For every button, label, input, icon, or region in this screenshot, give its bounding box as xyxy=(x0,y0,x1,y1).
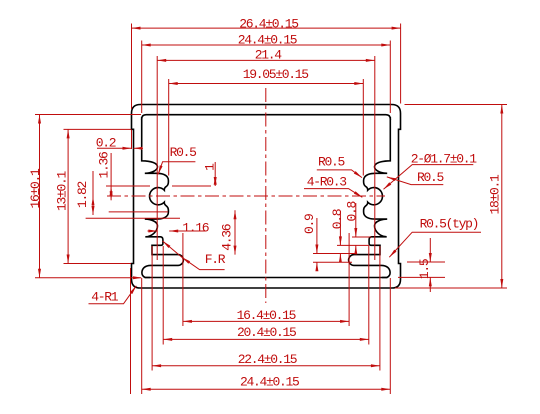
svg-text:19.05±0.15: 19.05±0.15 xyxy=(243,67,309,82)
svg-text:4.36: 4.36 xyxy=(220,224,235,251)
svg-text:16.4±0.15: 16.4±0.15 xyxy=(237,308,296,323)
svg-text:1.82: 1.82 xyxy=(75,182,90,209)
svg-text:0.8: 0.8 xyxy=(344,201,359,221)
svg-text:4-R0.3: 4-R0.3 xyxy=(307,175,347,190)
svg-text:0.9: 0.9 xyxy=(302,214,317,234)
svg-text:24.4±0.15: 24.4±0.15 xyxy=(238,33,297,48)
svg-text:R0.5: R0.5 xyxy=(170,145,197,160)
svg-text:24.4±0.15: 24.4±0.15 xyxy=(240,375,299,390)
svg-text:R0.5: R0.5 xyxy=(318,155,345,170)
svg-text:R0.5: R0.5 xyxy=(417,170,444,185)
svg-text:22.4±0.15: 22.4±0.15 xyxy=(238,352,297,367)
svg-text:4-R1: 4-R1 xyxy=(91,290,119,305)
svg-text:0.8: 0.8 xyxy=(330,209,345,229)
svg-text:1.5: 1.5 xyxy=(417,259,432,279)
svg-text:13±0.1: 13±0.1 xyxy=(55,171,70,212)
svg-text:R0.5(typ): R0.5(typ) xyxy=(420,217,479,232)
svg-text:26.4±0.15: 26.4±0.15 xyxy=(239,16,298,31)
svg-text:0.2: 0.2 xyxy=(96,136,116,151)
svg-text:F.R: F.R xyxy=(205,252,226,267)
svg-text:1.16: 1.16 xyxy=(182,221,209,236)
svg-text:1.36: 1.36 xyxy=(97,152,112,179)
svg-text:18±0.1: 18±0.1 xyxy=(488,174,503,215)
svg-text:21.4: 21.4 xyxy=(255,48,283,63)
svg-text:2-Ø1.7±0.1: 2-Ø1.7±0.1 xyxy=(411,152,478,167)
svg-text:16±0.1: 16±0.1 xyxy=(28,168,43,209)
svg-text:20.4±0.15: 20.4±0.15 xyxy=(237,325,296,340)
